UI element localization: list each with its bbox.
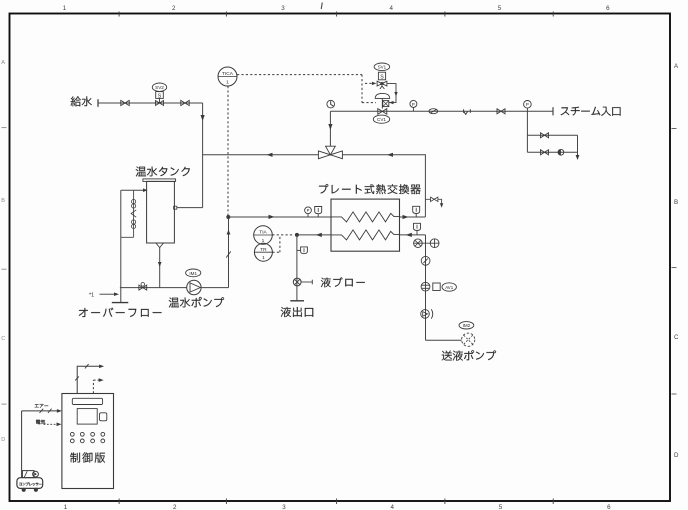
flow arrow down on feed pipe xyxy=(201,115,205,121)
svg-text:IM2: IM2 xyxy=(463,323,471,328)
temperature controller TICA-1 xyxy=(218,67,237,86)
thermometer well hot outlet xyxy=(413,206,420,213)
label 温水ポンプ (hot water pump) xyxy=(169,297,224,308)
level gauge chevron xyxy=(131,210,136,217)
label 温水タンク (hot water tank) xyxy=(136,167,190,177)
svg-text:6: 6 xyxy=(606,5,610,12)
svg-text:TR: TR xyxy=(260,247,267,253)
svg-text:D: D xyxy=(674,452,679,459)
drain valve on suction line xyxy=(139,285,147,290)
IM1 motor tag oval xyxy=(186,269,201,277)
svg-text:TIA: TIA xyxy=(259,230,267,236)
svg-text:2: 2 xyxy=(172,5,176,12)
wire feed water down pipe xyxy=(202,103,204,208)
wire panel signal out (solid) xyxy=(77,366,101,393)
label 給水 (feed water) xyxy=(71,96,92,106)
label 送液ポンプ (liquid feed pump) xyxy=(442,350,496,361)
wire trap bypass upper branch xyxy=(527,134,577,136)
thermometer well on hot supply xyxy=(315,207,322,214)
svg-text:3: 3 xyxy=(282,504,286,510)
CV1 tag oval xyxy=(373,115,389,123)
level gauge top valves xyxy=(132,200,136,204)
panel indicator buttons xyxy=(70,432,104,442)
svg-text:4: 4 xyxy=(390,504,394,510)
svg-text:AV1: AV1 xyxy=(445,285,454,290)
wire CV1 bypass loop xyxy=(387,84,396,103)
svg-text:5: 5 xyxy=(499,504,503,510)
thermometer well on drain xyxy=(301,247,308,254)
wire tank outlet to feed drop xyxy=(177,207,203,209)
air compressor xyxy=(17,478,43,489)
svg-text:A: A xyxy=(1,60,5,66)
wire pump discharge xyxy=(201,217,228,288)
panel display screen xyxy=(77,409,97,425)
panel small button square xyxy=(100,413,107,421)
valve on upper trap branch xyxy=(541,133,549,138)
control panel cabinet xyxy=(62,394,114,489)
liquid feed pump (dashed) xyxy=(462,333,475,346)
tank outlet nozzle xyxy=(174,206,177,209)
wire tank drain pipe xyxy=(159,248,161,288)
AV1 tag oval xyxy=(442,283,456,291)
wire trap outlet drop xyxy=(577,135,579,157)
SV1 pilot S box xyxy=(378,72,385,80)
heating coil (hot side) xyxy=(331,212,400,222)
temperature recorder TR-1 xyxy=(254,243,272,261)
svg-text:CV1: CV1 xyxy=(377,117,386,122)
dashed signal panel out xyxy=(93,380,100,393)
svg-text:P: P xyxy=(412,102,415,107)
wire process riser xyxy=(425,235,427,340)
hot water pump P1 xyxy=(187,280,201,294)
inline gauge on riser xyxy=(421,256,430,265)
dashed electric line xyxy=(44,423,59,425)
svg-text:1: 1 xyxy=(63,5,67,12)
SV2 solenoid S box xyxy=(156,92,164,99)
wire riser to feed pump xyxy=(426,339,462,341)
overflow outlet bar xyxy=(112,302,129,304)
level gauge bottom valves xyxy=(132,220,136,224)
liquid outlet end bar xyxy=(290,300,304,302)
svg-text:*1: *1 xyxy=(89,293,94,299)
svg-text:SV2: SV2 xyxy=(155,85,164,90)
valve V-b on feed line xyxy=(181,100,189,105)
thermometer well process inlet xyxy=(414,223,421,230)
check valve on riser xyxy=(421,310,430,319)
blow valve (circle-X) xyxy=(293,278,301,286)
svg-text:4: 4 xyxy=(389,5,393,12)
tank lid xyxy=(143,179,176,182)
svg-text:1: 1 xyxy=(226,80,229,86)
panel nameplate slot xyxy=(72,398,102,404)
flow arrow down to 3-way valve xyxy=(328,124,332,130)
svg-text:C: C xyxy=(674,334,679,341)
feed water line start tick xyxy=(97,99,99,107)
wire feed water horizontal pipe xyxy=(98,102,203,104)
drip leg / seal on steam line xyxy=(464,109,471,114)
svg-text:5: 5 xyxy=(498,5,502,12)
valve on steam line xyxy=(497,109,505,114)
steam inlet end tick xyxy=(552,107,554,115)
svg-text:2: 2 xyxy=(173,504,177,510)
node junction process outlet xyxy=(295,233,299,237)
svg-text:C: C xyxy=(1,336,5,342)
dashed signal spur to pilot valve xyxy=(365,82,373,84)
wire hot supply line to exchanger xyxy=(228,216,331,218)
compressor pulley xyxy=(33,471,39,477)
sample valve left of riser xyxy=(413,242,439,244)
svg-text:B: B xyxy=(674,199,678,206)
svg-text:S: S xyxy=(158,93,162,99)
compressor label コンプレッサー xyxy=(19,482,42,485)
dashed signal TR loop xyxy=(272,237,280,253)
svg-text:P: P xyxy=(307,208,310,213)
flow arrow left on return right segment xyxy=(387,153,393,157)
valve on lower trap branch xyxy=(541,150,549,155)
label 制御版 (control panel) xyxy=(70,452,105,462)
svg-text:IM1: IM1 xyxy=(189,271,197,276)
node junction pump discharge / TICA tap xyxy=(226,215,230,219)
wire blow spur xyxy=(301,281,312,283)
label プレート式熱交換器 (plate heat exchanger) xyxy=(319,184,421,194)
cooling coil (process side) xyxy=(331,230,400,240)
svg-text:TICA: TICA xyxy=(222,71,234,77)
tank inlet arrow (overflow loop) xyxy=(143,188,148,192)
compressor motor head xyxy=(22,471,34,478)
plate heat exchanger body xyxy=(331,199,400,251)
CV1 positioner box xyxy=(383,101,389,107)
wire hot water return line (left of 3-way valve) xyxy=(203,154,319,156)
strainer on steam line xyxy=(429,109,438,114)
wire steam trap bypass drop xyxy=(526,111,528,152)
svg-text:P: P xyxy=(526,102,529,107)
dashed signal TICA sensing line xyxy=(227,86,229,217)
steam trap xyxy=(558,149,564,155)
wire hot water return line (right of 3-way valve) xyxy=(342,155,425,217)
svg-text:S: S xyxy=(380,74,384,80)
wire liquid outlet drop xyxy=(296,235,298,301)
air operated valve AV1 xyxy=(421,282,430,291)
label 液出口 (liquid outlet) xyxy=(281,307,314,317)
svg-text:A: A xyxy=(674,63,679,70)
pressure gauge P on hot supply xyxy=(305,207,312,214)
tank bottom funnel xyxy=(156,243,164,248)
control valve CV1 body xyxy=(378,109,387,115)
svg-text:SV1: SV1 xyxy=(378,65,387,70)
label オーバーフロー (overflow) xyxy=(79,308,162,317)
wire process outlet to drain xyxy=(297,234,331,236)
compressor wheels xyxy=(22,488,26,492)
svg-text:B: B xyxy=(1,198,5,204)
temperature indicator alarm TIA-1 xyxy=(254,226,273,245)
vent branch with valve xyxy=(425,199,441,205)
pilot solenoid valve of CV1 xyxy=(377,81,387,89)
label スチーム入口 (steam inlet) xyxy=(561,107,621,116)
svg-text:D: D xyxy=(1,437,5,443)
svg-text:1: 1 xyxy=(262,255,265,261)
wire pump suction line xyxy=(120,287,187,289)
wire steam main line xyxy=(330,110,553,112)
pressure gauge P (steam inlet) xyxy=(524,101,532,109)
label 液ブロー (liquid blow) xyxy=(321,277,365,287)
3-way mixing valve xyxy=(318,146,342,159)
wire air supply line xyxy=(22,411,59,478)
wire process inlet from riser xyxy=(400,234,426,236)
svg-text:6: 6 xyxy=(607,504,611,510)
hot water tank body xyxy=(147,181,175,243)
gauge K at steam junction xyxy=(327,100,335,108)
level gauge line xyxy=(121,190,134,237)
wire overflow stand pipe xyxy=(121,190,143,302)
gauge right of riser xyxy=(430,239,439,248)
wire hot side outlet xyxy=(400,216,426,218)
dashed signal TICA to CV1 xyxy=(237,75,376,103)
svg-text:1: 1 xyxy=(64,504,68,510)
pipe break slash on riser xyxy=(226,251,231,257)
label エアー (air) xyxy=(35,404,49,408)
CV1 diaphragm actuator xyxy=(375,93,390,98)
CV1 stem xyxy=(381,98,383,108)
SV2 tag oval xyxy=(152,83,166,91)
label 電気 (electric) xyxy=(36,420,45,425)
IM2 motor tag oval xyxy=(459,322,474,329)
wire steam drop to 3-way valve xyxy=(329,111,331,146)
pressure gauge P (after CV1) xyxy=(410,100,417,107)
wire trap lower branch xyxy=(527,151,577,153)
svg-text:3: 3 xyxy=(281,5,285,12)
solenoid valve SV2 xyxy=(156,98,164,105)
dashed signal TIA to line xyxy=(272,234,294,236)
flow arrow left on return line xyxy=(267,153,273,157)
SV1 tag oval xyxy=(374,63,390,71)
valve V-a on feed line xyxy=(121,100,129,105)
